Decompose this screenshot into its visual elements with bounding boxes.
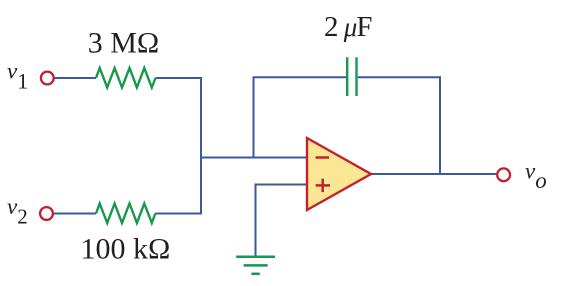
wire v1 to R1	[55, 77, 97, 79]
wire v2 to R2	[54, 213, 97, 215]
terminal v1	[41, 72, 54, 85]
wire ground vertical	[255, 184, 257, 257]
wire output	[370, 173, 498, 175]
svg-text:vo: vo	[525, 159, 547, 193]
op-amp U1	[307, 138, 371, 210]
svg-text:v1: v1	[7, 59, 28, 94]
wire feedback right vertical	[439, 77, 441, 175]
svg-text:2: 2	[324, 11, 339, 43]
wire R1 to junction	[156, 77, 203, 79]
wire feedback top left	[253, 76, 347, 78]
resistor R1 3 Mohm	[96, 68, 156, 88]
capacitor C 2 uF	[346, 57, 348, 96]
wire R2 to junction	[155, 213, 202, 215]
wire feedback top right	[358, 76, 441, 78]
op-amp minus sign	[316, 156, 329, 159]
ground	[236, 257, 275, 274]
wire feedback left vertical	[253, 77, 255, 158]
op-amp plus sign	[316, 179, 330, 192]
svg-text:μ: μ	[343, 12, 358, 42]
svg-text:100 kΩ: 100 kΩ	[81, 233, 171, 266]
svg-text:v2: v2	[7, 194, 28, 228]
wire noninverting input	[256, 184, 308, 186]
wire junction vertical	[200, 77, 202, 215]
wire inverting input	[201, 157, 307, 159]
terminal vo	[497, 168, 510, 181]
resistor R2 100 kohm	[96, 204, 155, 224]
svg-text:3 MΩ: 3 MΩ	[88, 27, 159, 60]
svg-text:F: F	[356, 11, 372, 43]
terminal v2	[40, 207, 53, 220]
